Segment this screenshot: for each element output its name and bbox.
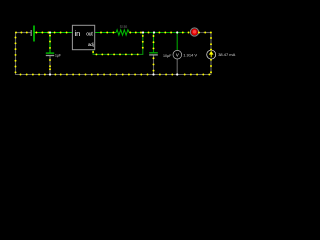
svg-text:32.5Ω: 32.5Ω xyxy=(120,24,128,28)
svg-text:1µF: 1µF xyxy=(55,54,61,58)
svg-text:in: in xyxy=(75,29,81,38)
svg-text:10µF: 10µF xyxy=(163,54,172,58)
svg-text:V: V xyxy=(176,52,179,57)
svg-text:38.47 mA: 38.47 mA xyxy=(218,52,235,57)
svg-text:adj: adj xyxy=(88,42,94,47)
svg-text:1.914 V: 1.914 V xyxy=(183,53,197,58)
svg-text:out: out xyxy=(86,31,93,37)
